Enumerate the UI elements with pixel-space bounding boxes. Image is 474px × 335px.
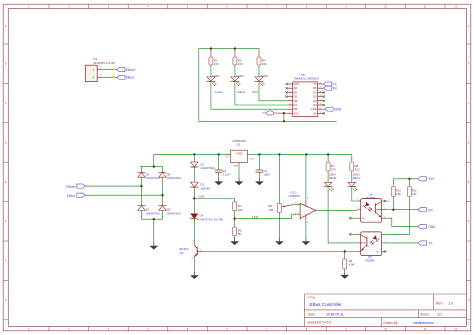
wire U4 collector to RX node: [385, 209, 394, 211]
capacitor C2 10uF: [256, 154, 271, 181]
svg-text:LED4: LED4: [329, 173, 336, 177]
svg-text:1/1: 1/1: [438, 312, 443, 316]
no-connect stub U4 pin 6: [384, 200, 386, 202]
svg-text:C: C: [468, 102, 470, 105]
svg-text:Red: Red: [252, 90, 258, 94]
junction at R1 top: [210, 47, 212, 49]
svg-text:7V: 7V: [262, 111, 266, 115]
diode D7 1N4007RLG: [138, 172, 161, 180]
svg-text:-: -: [301, 204, 302, 208]
P1 pin 1 wire: [97, 67, 116, 71]
wire R4 to R5 divider node: [234, 211, 236, 228]
svg-text:Q1: Q1: [180, 251, 184, 255]
svg-text:EBus-: EBus-: [67, 194, 76, 198]
wire rail to D2: [193, 154, 195, 162]
wire U5 emitter to Q1 base node: [205, 251, 358, 253]
junction at R2 top: [234, 47, 236, 49]
svg-text:220: 220: [214, 62, 219, 66]
svg-text:U2: U2: [236, 143, 240, 147]
LED LED5 RECV: [348, 173, 361, 192]
wire op-amp V+ to rail: [305, 154, 307, 199]
svg-text:Drawn By:: Drawn By:: [384, 321, 399, 325]
no-connect stub U5 pin 3: [384, 250, 386, 252]
svg-text:3V3: 3V3: [294, 111, 299, 115]
svg-text:metaneutrons: metaneutrons: [413, 321, 434, 325]
svg-text:G: G: [5, 260, 7, 263]
zener diode D4 1N4737A (7.5V 1W): [190, 214, 223, 222]
svg-text:R11: R11: [412, 188, 417, 192]
svg-text:GND: GND: [233, 165, 238, 167]
junction rail at op-amp supply: [305, 153, 307, 155]
op-amp U3.1 LM393N: [289, 191, 320, 224]
svg-text:1N4737A (7.5V 1W): 1N4737A (7.5V 1W): [199, 217, 223, 221]
svg-text:D: D: [5, 141, 7, 144]
svg-text:EasyEDA V4.5.6: EasyEDA V4.5.6: [308, 321, 332, 325]
junction bridge bottom tap: [153, 218, 155, 220]
wire bridge right top: [162, 167, 164, 173]
diode D1 1N4007RLG: [138, 206, 161, 216]
wire R3 to LED3: [258, 65, 260, 77]
wire 12V top rail of LED section: [199, 48, 259, 50]
wire Q1 emitter to ground: [193, 258, 195, 275]
potentiometer R6 10K: [268, 203, 292, 212]
svg-text:10uF: 10uF: [263, 173, 270, 177]
net port EBus+ (bridge): [66, 184, 85, 189]
svg-text:L7805: L7805: [235, 151, 243, 155]
ground under op-amp: [305, 238, 307, 241]
svg-text:Date:: Date:: [308, 312, 316, 316]
junction R11 top: [408, 178, 410, 180]
wire U4 emitter to GND port: [385, 218, 418, 226]
optocoupler U4 4N25M: [357, 193, 390, 223]
svg-text:H: H: [468, 299, 470, 302]
svg-text:MJ12MV 5.0-2P: MJ12MV 5.0-2P: [94, 61, 116, 65]
svg-text:16: 16: [320, 83, 322, 85]
svg-text:Sheet:: Sheet:: [420, 312, 429, 316]
wire LED3 to U6: [259, 81, 287, 101]
wire 3V3 rail: [393, 178, 417, 180]
wire node to D4: [193, 199, 195, 214]
svg-text:LED1: LED1: [213, 74, 221, 78]
wire D4 to Q1 collector: [193, 218, 195, 243]
resistor R3 220: [257, 49, 267, 67]
wire U2 GND pin to ground: [238, 167, 240, 182]
wire EBus+ to bridge: [85, 185, 141, 187]
wire rail down to bridge top: [153, 154, 155, 166]
wire D6 to D5: [162, 177, 164, 206]
wire U6 GND to port: [323, 108, 325, 110]
resistor R7 470: [326, 154, 336, 171]
svg-text:EBus Controller: EBus Controller: [310, 302, 343, 307]
junction rail at R7: [327, 153, 329, 155]
svg-text:D2: D2: [201, 162, 205, 166]
svg-text:EBus-: EBus-: [126, 76, 135, 80]
wire U6 TX to port: [322, 83, 325, 85]
svg-text:3V3: 3V3: [428, 177, 434, 181]
wire rail to R6 top: [278, 154, 280, 203]
junction node 11.9V: [193, 197, 195, 199]
svg-text:1.0: 1.0: [448, 302, 453, 306]
wire RX node to port: [393, 209, 417, 211]
svg-text:D4: D4: [200, 214, 204, 218]
svg-text:7: 7: [289, 108, 290, 110]
svg-text:1N4007RLG: 1N4007RLG: [145, 211, 160, 215]
svg-text:2018-05-11: 2018-05-11: [327, 312, 344, 316]
svg-text:220: 220: [238, 62, 243, 66]
wire main 12V rail (right segment): [247, 153, 351, 155]
svg-text:LED5: LED5: [353, 173, 360, 177]
svg-text:OUT: OUT: [250, 159, 255, 161]
wire LED5 to U4 anode: [352, 187, 358, 201]
net port GND: [418, 225, 436, 230]
wire node 11.9V to R4: [194, 199, 234, 202]
wire R7 to LED4: [327, 171, 329, 182]
ground under R5: [234, 238, 236, 241]
net port TX (U6): [324, 82, 338, 86]
svg-text:WEMOS_WEMOS: WEMOS_WEMOS: [294, 77, 319, 81]
wire D2 to D3: [193, 167, 195, 183]
svg-text:LED3: LED3: [261, 74, 269, 78]
svg-text:5: 5: [289, 99, 290, 101]
svg-text:NC: NC: [376, 251, 380, 253]
resistor R10 4.5K: [391, 179, 401, 197]
diode D5 1N4007RLG: [159, 206, 182, 216]
wire R6 wiper to comparator IN-: [293, 204, 300, 206]
net port RX (U6): [324, 86, 338, 90]
net port EBus- (bridge): [67, 193, 85, 198]
title block: [304, 294, 466, 326]
ground under R9: [344, 272, 346, 275]
svg-text:220: 220: [262, 62, 267, 66]
svg-text:D5: D5: [167, 208, 171, 212]
svg-text:D7: D7: [146, 172, 150, 176]
wire R8 to LED5: [351, 171, 353, 182]
resistor R4 20K: [233, 202, 244, 212]
junction EBus- tap: [161, 194, 163, 196]
junction rail at R6 column: [278, 153, 280, 155]
net port GND (U6): [325, 107, 342, 111]
wire bridge bottom bar: [142, 210, 163, 219]
resistor R2 220: [233, 49, 243, 67]
wire LED2 to U6: [235, 81, 288, 105]
svg-text:NC: NC: [362, 218, 366, 220]
net port EBus+ (P1): [117, 68, 136, 72]
wire main 12V rail (left segment): [154, 153, 231, 155]
ground under U2: [238, 178, 240, 181]
junction bridge top tap: [153, 165, 155, 167]
wire op-amp output to U4 cathode: [318, 209, 358, 211]
diode D2 1N4007RLG: [191, 162, 216, 170]
junction divider node: [233, 218, 235, 220]
resistor R9 4.9K: [343, 252, 355, 269]
svg-text:14: 14: [320, 91, 322, 93]
wire op-amp V- to ground: [305, 221, 307, 241]
svg-text:220: 220: [355, 168, 360, 172]
svg-text:D: D: [468, 141, 470, 144]
svg-text:NC: NC: [387, 201, 391, 203]
net port EBus- (P1): [117, 75, 135, 79]
junction RX node: [392, 209, 394, 211]
svg-text:REV:: REV:: [436, 302, 444, 306]
svg-text:EBus+: EBus+: [126, 68, 136, 72]
junction rail at C2: [258, 153, 260, 155]
ground under C1: [218, 178, 220, 181]
wire LED1 to U6: [211, 81, 288, 109]
net port 3V3: [418, 177, 434, 182]
svg-text:10K: 10K: [268, 208, 273, 212]
wire divider node to comparator IN+: [235, 214, 301, 219]
no-connect marks on U6 unused pins: [286, 83, 325, 115]
capacitor C1 0.1uF: [215, 154, 230, 181]
WeMos module U6 WEMOS_WEMOS: [287, 73, 323, 117]
svg-text:1N914A: 1N914A: [200, 186, 210, 190]
wire bridge to ground: [153, 219, 155, 246]
no-connect stub U5 base pin: [349, 233, 358, 235]
svg-text:Yellow: Yellow: [236, 90, 246, 94]
wire R9 to ground: [344, 269, 346, 275]
svg-text:1: 1: [289, 83, 290, 85]
svg-text:3: 3: [289, 91, 290, 93]
wire LED4 to U5 collector: [328, 187, 358, 243]
svg-text:GND: GND: [334, 108, 342, 112]
svg-text:TITLE:: TITLE:: [308, 295, 316, 299]
svg-text:GND: GND: [428, 225, 436, 229]
net port TX: [418, 241, 434, 246]
net port RX: [418, 208, 434, 213]
svg-text:C: C: [5, 102, 7, 105]
wire 7V loop (left vertical and bottom run): [199, 49, 337, 122]
junction rail at C1: [218, 153, 220, 155]
svg-text:11.9V: 11.9V: [198, 196, 204, 199]
voltage flag 7V at U6 3V3 pin: [262, 111, 284, 115]
wire D3 to node 11.9V: [193, 187, 195, 199]
svg-text:D1: D1: [146, 208, 150, 212]
svg-text:Green: Green: [215, 90, 224, 94]
svg-text:D6: D6: [167, 172, 171, 176]
resistor R8 220: [350, 162, 360, 172]
resistor R11 130: [408, 179, 418, 197]
wire R2 to LED2: [234, 65, 236, 77]
svg-text:2: 2: [289, 87, 290, 89]
svg-text:1N4007RLG: 1N4007RLG: [145, 176, 160, 180]
voltage regulator U2 L7805ABV: [226, 139, 255, 168]
wire R11 to U5 anode: [385, 197, 410, 235]
svg-text:1.54V: 1.54V: [252, 216, 259, 219]
junction rail at D2 column: [193, 153, 195, 155]
svg-text:5K: 5K: [238, 232, 242, 236]
svg-text:RECV: RECV: [353, 176, 361, 180]
diode D3 1N914A: [191, 182, 211, 190]
svg-text:4: 4: [289, 95, 290, 97]
svg-text:G: G: [468, 260, 470, 263]
svg-text:1N4007RLG: 1N4007RLG: [166, 211, 181, 215]
svg-text:SEND: SEND: [329, 176, 337, 180]
ground under bridge: [153, 242, 155, 245]
svg-text:4.9K: 4.9K: [349, 263, 355, 267]
svg-text:13: 13: [320, 95, 322, 97]
svg-text:LED2: LED2: [237, 74, 245, 78]
junction on 7V loop below U6: [283, 120, 285, 122]
svg-text:12: 12: [320, 99, 322, 101]
svg-text:H: H: [5, 299, 7, 302]
svg-text:6: 6: [289, 104, 290, 106]
svg-text:4.5K: 4.5K: [396, 192, 402, 196]
svg-text:4N25M: 4N25M: [365, 259, 375, 263]
svg-text:8: 8: [289, 112, 290, 114]
P1 pin 2 wire: [97, 74, 116, 78]
svg-text:0.1uF: 0.1uF: [223, 173, 231, 177]
ground under C2: [258, 178, 260, 181]
transistor Q1 BC337: [180, 243, 205, 259]
svg-text:10: 10: [320, 108, 322, 110]
wire R5 to ground: [234, 236, 236, 242]
svg-text:20K: 20K: [238, 208, 243, 212]
wire bridge top bar: [140, 166, 163, 168]
LED LED2 Yellow: [230, 74, 246, 94]
wire rail corner to R8: [351, 154, 353, 162]
svg-text:11: 11: [320, 104, 322, 106]
ground under Q1: [193, 272, 195, 275]
optocoupler U5 4N25M: [357, 232, 386, 263]
wire TX port to U5 cathode: [385, 242, 418, 244]
svg-text:EBus+: EBus+: [66, 185, 76, 189]
svg-text:130: 130: [412, 192, 417, 196]
svg-text:R10: R10: [396, 188, 401, 192]
svg-text:5V: 5V: [313, 111, 317, 115]
svg-text:1N4007RLG: 1N4007RLG: [200, 166, 215, 170]
wire R6 bottom to ground: [278, 213, 280, 242]
ground under R6: [278, 238, 280, 241]
LED LED4 SEND: [324, 173, 337, 192]
wire bridge left top: [141, 167, 143, 173]
resistor R1 220: [209, 49, 219, 67]
LED LED1 Green: [206, 74, 223, 94]
wire R10 to RX node: [392, 197, 394, 210]
svg-text:9: 9: [320, 112, 321, 114]
LED LED3 Red: [252, 74, 268, 94]
svg-text:1N4007RLG: 1N4007RLG: [166, 176, 181, 180]
wire R1 to LED1: [210, 65, 212, 77]
junction R9 top: [344, 250, 346, 252]
svg-text:D3: D3: [201, 183, 205, 187]
wire EBus- to bridge: [85, 194, 162, 196]
junction at 3V3 flag: [283, 112, 285, 114]
diode D6 1N4007RLG: [159, 172, 182, 180]
wire flag junction to U6 3V3 and down to 7V loop: [284, 113, 288, 121]
svg-text:470: 470: [331, 168, 336, 172]
svg-text:15: 15: [320, 87, 322, 89]
svg-text:LM393N: LM393N: [289, 194, 300, 198]
junction EBus+ tap: [140, 185, 142, 187]
connector P1 MJ12MV 5.0-2P: [85, 57, 115, 82]
resistor R5 5K: [233, 227, 242, 236]
no-connect stub U4 pin 3: [349, 217, 358, 219]
wire D7 to D1: [141, 177, 143, 206]
